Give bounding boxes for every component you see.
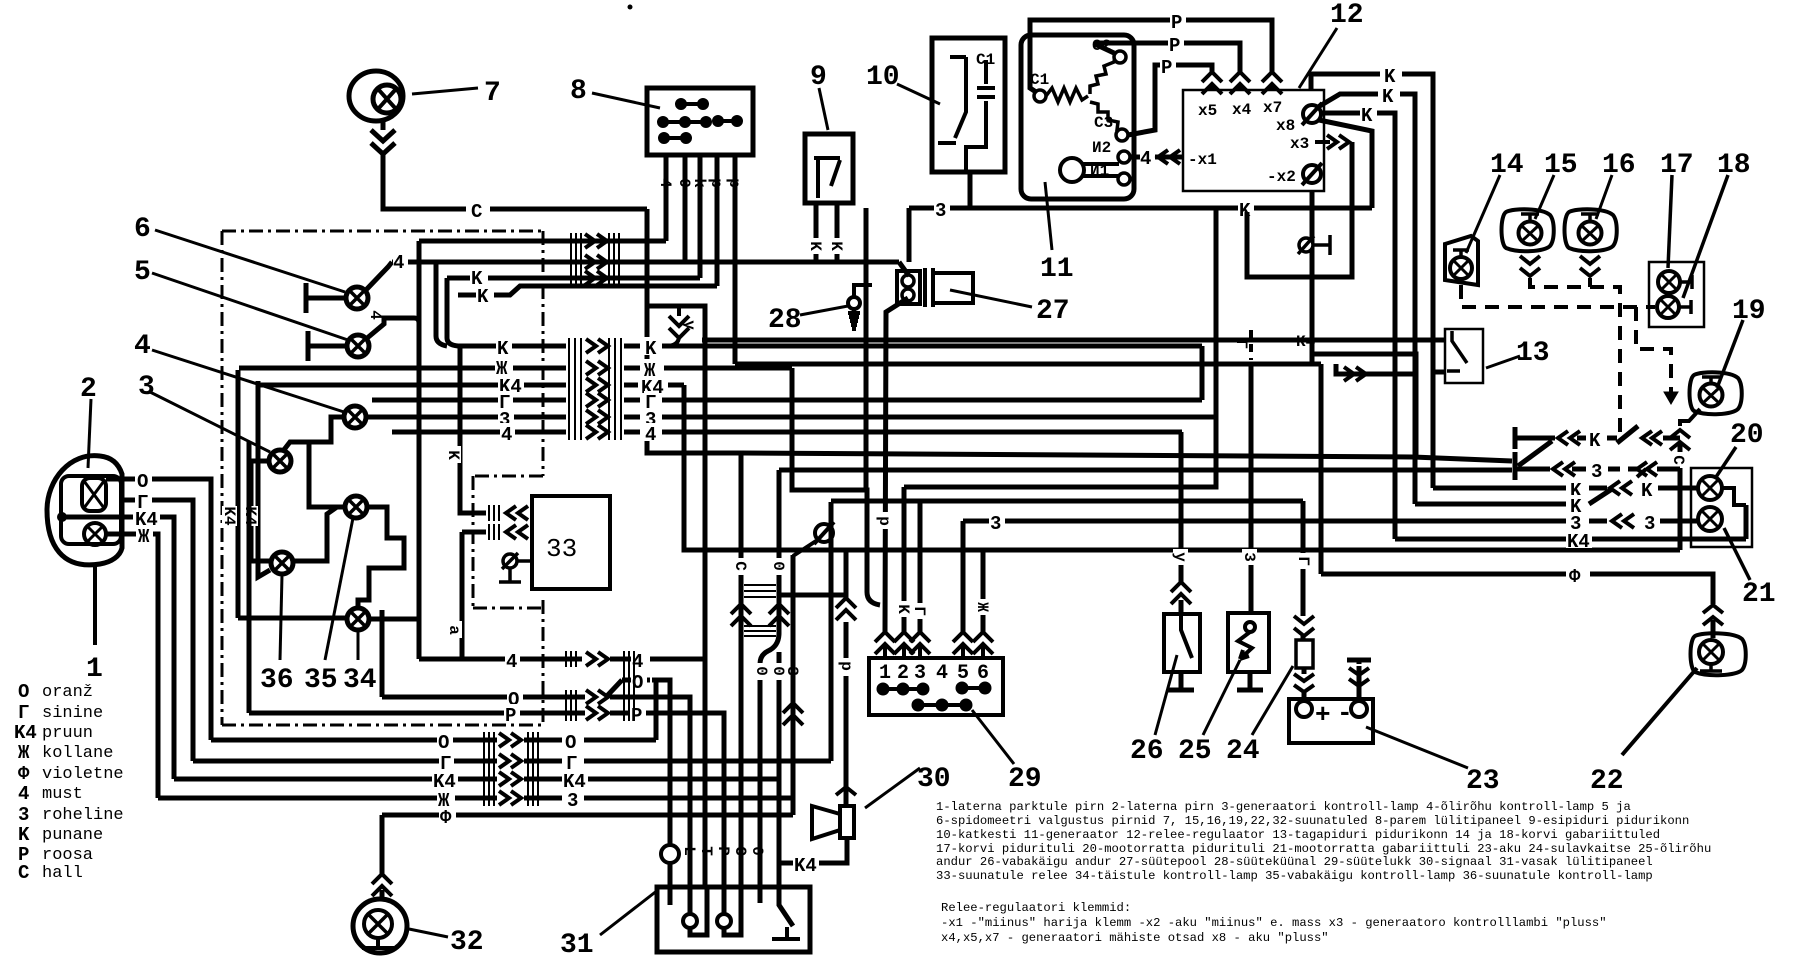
svg-text:3: 3 (1644, 513, 1655, 535)
svg-text:K: K (444, 450, 462, 460)
wires below box 9 (816, 203, 837, 262)
row Z y417 (366, 415, 566, 420)
label K on row295 (476, 286, 494, 308)
svg-text:1: 1 (86, 654, 103, 685)
leader to label 11 (1045, 182, 1052, 250)
lamp 4 (344, 406, 366, 428)
lamp 34 (high beam) (347, 608, 369, 630)
diagonal from x8 down to k207 line (1319, 120, 1372, 208)
svg-text:K: K (1641, 480, 1653, 502)
box 33 (flasher relay) (532, 496, 610, 589)
rotated terminal labels above panel 31 (680, 846, 766, 856)
row KCH y539 (1395, 505, 1746, 539)
bottom bundle chevrons (499, 733, 521, 805)
vertical bus x436 from ch wire (436, 262, 447, 346)
K wire 2 (y94) from x8 (1318, 94, 1378, 107)
svg-text:p: p (725, 178, 743, 188)
row O y680 (622, 680, 670, 844)
svg-text:4: 4 (393, 252, 404, 274)
svg-text:25: 25 (1178, 736, 1212, 767)
component 26 (neutral sender) (1164, 614, 1200, 672)
headlamp wire ZH (106, 532, 136, 537)
svg-text:3: 3 (567, 790, 578, 812)
wire F down to lamp 32 (380, 815, 385, 898)
svg-text:0: 0 (769, 561, 787, 571)
row O y697 (382, 610, 585, 697)
C and F verticals into panel with chevrons (731, 604, 789, 626)
wire ZH riser x792 (792, 368, 880, 605)
svg-text:4: 4 (366, 310, 384, 320)
rotor (1060, 158, 1119, 182)
svg-text:p: p (837, 661, 855, 671)
svg-text:y: y (1171, 552, 1189, 562)
three P wires from generator (1030, 20, 1272, 135)
battery 23 (1289, 699, 1373, 743)
lamp 32 (353, 899, 407, 953)
svg-text:8: 8 (570, 76, 587, 107)
svg-text:3: 3 (138, 372, 155, 403)
svg-text:4: 4 (936, 662, 948, 685)
svg-text:oranž: oranž (42, 683, 93, 702)
svg-text:5: 5 (957, 662, 969, 685)
svg-text:K: K (1589, 430, 1601, 452)
generator 11 (1021, 35, 1134, 199)
wire x909 down to y262 (907, 208, 912, 262)
vertical bus x419 (417, 241, 422, 659)
wire F to lamp22 with chevrons (1711, 620, 1716, 638)
relay input wires with chevrons (460, 346, 486, 513)
svg-text:kollane: kollane (42, 744, 113, 763)
leader to label 7 (412, 88, 478, 94)
box 20 21 (motorcycle rear) (1691, 468, 1752, 547)
svg-text:2: 2 (80, 374, 97, 405)
svg-text:33-suunatule relee 34-täistule: 33-suunatule relee 34-täistule kontroll-… (936, 869, 1653, 883)
svg-text:K: K (1384, 66, 1396, 88)
wire x3 down and left (1247, 142, 1352, 277)
vertical x866 (864, 208, 869, 490)
svg-text:32: 32 (450, 927, 484, 958)
box 13 (rear brake switch) (1445, 329, 1483, 383)
lamp 14 (sidecar front light) (1445, 236, 1478, 285)
junction dot on frame (57, 512, 67, 522)
svg-text:-x2: -x2 (1267, 168, 1296, 186)
svg-text:-: - (1337, 698, 1353, 728)
svg-text:roosa: roosa (42, 846, 93, 865)
svg-text:C: C (731, 561, 749, 571)
svg-text:3: 3 (1591, 461, 1602, 483)
leader 22 (1622, 668, 1697, 755)
svg-text:Г: Г (1232, 339, 1250, 349)
coil lower wire to ignition (885, 298, 908, 632)
svg-text:P: P (1161, 57, 1172, 79)
headlamp wire G (122, 498, 135, 503)
wire t5 horizontal y521 (963, 519, 1250, 524)
svg-text:4: 4 (656, 178, 674, 188)
svg-text:24: 24 (1226, 736, 1260, 767)
panel 31 interior (670, 887, 800, 939)
headlamp housing (1,2) (47, 456, 122, 565)
row F y574 (1321, 574, 1713, 604)
wire lamp34 left to KCH vertical (238, 616, 347, 621)
svg-text:K4: K4 (1567, 531, 1590, 553)
-x2 wire down with connector symbol (1310, 191, 1315, 364)
lamp 36 (turn indicator) (271, 552, 293, 574)
k wire 3 (y113) from x8 (1322, 111, 1360, 116)
vertical x793 (F riser) (791, 555, 796, 815)
svg-text:K: K (1361, 105, 1373, 127)
row KCH y385 (258, 383, 566, 388)
wire row y295 K jog (458, 286, 717, 295)
svg-text:T: T (697, 846, 715, 856)
svg-text:P: P (714, 846, 732, 856)
svg-text:x7: x7 (1263, 99, 1282, 117)
lamp 22 (1691, 633, 1746, 675)
row ch y659 (419, 657, 582, 662)
stray mark (628, 5, 633, 10)
svg-text:5: 5 (134, 257, 151, 288)
svg-text:must: must (42, 785, 83, 804)
bundle chevrons (586, 339, 608, 439)
svg-text:Ф: Ф (1569, 566, 1581, 588)
leader to label 1 (93, 566, 97, 645)
ground symbol at box33 (499, 553, 532, 582)
svg-text:Г: Г (18, 702, 29, 724)
wire И2 to -x1 (1130, 155, 1183, 160)
svg-text:3: 3 (1240, 552, 1258, 562)
svg-text:0: 0 (752, 666, 770, 676)
svg-text:x4,x5,x7 - generaatori mähiste: x4,x5,x7 - generaatori mähiste otsad x8 … (941, 931, 1329, 945)
chevron arrows into box12 top (1202, 72, 1282, 94)
lamp19 hook to C vertical (1680, 409, 1700, 426)
row z y469 (1515, 459, 1680, 480)
long wire y208 (909, 206, 1372, 211)
svg-text:1: 1 (879, 662, 891, 685)
svg-text:6: 6 (977, 662, 989, 685)
wire: lamp7 down with chevrons (371, 122, 647, 209)
svg-text:Ж: Ж (496, 358, 508, 380)
leader to label 31 (600, 890, 658, 935)
wire: branch to panel switch vertical (647, 306, 705, 887)
svg-text:violetne: violetne (42, 765, 124, 784)
component 25 (oil pressure sender) (1228, 613, 1269, 672)
svg-text:27: 27 (1036, 296, 1070, 327)
riser x1416 from -x2 stub (1312, 354, 1416, 457)
chevrons on branch (node u) (666, 306, 689, 346)
svg-text:-x1 -"miinus" harija klemm -x2: -x1 -"miinus" harija klemm -x2 -aku "mii… (941, 916, 1607, 930)
svg-text:3: 3 (914, 662, 926, 685)
svg-text:Ж: Ж (973, 602, 991, 612)
wire y262 to coil (899, 262, 909, 276)
theta and Z rotated labels mid (752, 663, 770, 680)
horn feed wire (844, 550, 849, 806)
box 12 (relay-regulator) (1183, 90, 1324, 191)
svg-text:12: 12 (1330, 0, 1364, 31)
svg-text:O: O (18, 681, 29, 703)
wire row y278 K (447, 276, 700, 281)
lamp 3 (269, 450, 291, 472)
svg-text:K: K (645, 338, 657, 360)
headlamp wire KCH (62, 515, 133, 520)
svg-text:-x1: -x1 (1188, 151, 1217, 169)
ignition lock 29 (869, 658, 1003, 715)
svg-text:x4: x4 (1232, 101, 1252, 119)
svg-text:Ж: Ж (18, 742, 30, 764)
bottom bundle row KCH y779 (174, 777, 497, 782)
terminal -x2 (1302, 163, 1322, 185)
svg-text:31: 31 (560, 930, 594, 961)
svg-text:K: K (18, 824, 30, 846)
svg-text:26: 26 (1130, 736, 1164, 767)
lamp 6 with T-bar (306, 262, 392, 313)
svg-text:K: K (1382, 86, 1394, 108)
rotated wire labels under box 8 (656, 178, 743, 188)
svg-text:p: p (875, 516, 893, 526)
svg-text:13: 13 (1516, 338, 1550, 369)
long wire y364 (735, 362, 1321, 367)
svg-text:C: C (1669, 455, 1687, 465)
relay terminals text block (941, 901, 1607, 945)
svg-text:andur 26-vabakäigu andur 27-sü: andur 26-vabakäigu andur 27-süütepool 28… (936, 855, 1653, 869)
row P y713 (249, 442, 585, 713)
bottom bundle row G y761 (193, 759, 497, 764)
ignition coil 27 (897, 268, 973, 307)
box 17 18 (sidecar rear) (1649, 262, 1704, 327)
wire lamp4 left to lamp3 (283, 417, 344, 451)
svg-text:30: 30 (917, 764, 951, 795)
fuse 24 (1301, 501, 1306, 640)
svg-text:14: 14 (1490, 150, 1524, 181)
svg-text:K4: K4 (220, 506, 238, 526)
lamp 1 (park bulb) (84, 523, 106, 545)
svg-text:Relee-regulaatori klemmid:: Relee-regulaatori klemmid: (941, 901, 1131, 915)
ignition feeds (902, 487, 907, 632)
svg-text:+: + (1315, 700, 1331, 730)
bottom bundle row F y815 (382, 813, 793, 818)
legend text block (936, 800, 1711, 883)
svg-text:Ф: Ф (440, 807, 452, 829)
KCH vertical pair (236, 370, 241, 618)
ignition terminal chevrons (875, 632, 993, 658)
legend wire colour table (14, 681, 124, 884)
wire lamp3 left down to lamp36 (251, 461, 271, 561)
svg-text:punane: punane (42, 826, 103, 845)
svg-text:O: O (137, 471, 148, 493)
svg-text:P: P (1169, 35, 1180, 57)
svg-text:C1: C1 (1030, 71, 1049, 89)
svg-text:10-katkesti 11-generaator 12-r: 10-katkesti 11-generaator 12-relee-regul… (936, 828, 1660, 842)
dashed wiring sidecar (1461, 278, 1671, 432)
svg-text:C: C (471, 201, 482, 223)
box13 top wire y340 (702, 338, 1445, 343)
lamp 2 (headlight bulb) (82, 478, 106, 511)
svg-text:4: 4 (506, 651, 517, 673)
svg-text:4: 4 (1140, 148, 1151, 170)
svg-text:K: K (477, 286, 489, 308)
box 9 (front brake switch) (805, 134, 853, 203)
svg-text:O: O (438, 732, 449, 754)
bottom bundle row O y740 (211, 738, 497, 743)
svg-text:C3: C3 (1094, 114, 1113, 132)
svg-text:18: 18 (1717, 150, 1751, 181)
svg-text:C: C (18, 862, 29, 884)
svg-text:x3: x3 (1290, 135, 1309, 153)
svg-text:p: p (707, 178, 725, 188)
svg-text:34: 34 (343, 665, 377, 696)
lamp 16 (1565, 209, 1617, 251)
terminal x8 (1302, 103, 1322, 125)
box 8 (right switch panel) (647, 88, 753, 155)
svg-text:20: 20 (1730, 420, 1764, 451)
handlebar rows: row k y438 (1515, 426, 1680, 449)
row z y521 (1250, 519, 1697, 524)
svg-text:17: 17 (1660, 150, 1694, 181)
svg-text:4: 4 (134, 331, 151, 362)
svg-text:4: 4 (18, 783, 29, 805)
svg-text:y: y (680, 320, 698, 330)
svg-text:23: 23 (1466, 766, 1500, 797)
row K y346 (458, 344, 566, 349)
F riser x1321 (1319, 364, 1324, 574)
wire lamp35 left riser (309, 442, 345, 507)
svg-text:roheline: roheline (42, 806, 124, 825)
svg-text:И2: И2 (1092, 139, 1111, 157)
wire row y241 (419, 239, 666, 244)
svg-text:21: 21 (1742, 579, 1776, 610)
svg-text:Ф: Ф (18, 763, 30, 785)
leader to label 27 (950, 290, 1032, 307)
svg-text:O: O (565, 732, 576, 754)
svg-text:sinine: sinine (42, 704, 103, 723)
row K y488 (brake light) (1433, 486, 1697, 491)
svg-text:0: 0 (748, 846, 766, 856)
frame connector symbol (793, 522, 834, 556)
chevrons below lamps 15 16 (1520, 256, 1600, 276)
wires below box 8 (666, 155, 735, 364)
svg-text:33: 33 (546, 534, 577, 564)
svg-text:6: 6 (134, 214, 151, 245)
leader 29 (972, 710, 1014, 764)
svg-text:29: 29 (1008, 764, 1042, 795)
svg-text:P: P (1171, 12, 1182, 34)
svg-text:L: L (680, 846, 698, 856)
svg-text:17-korvi pidurituli 20-mootorr: 17-korvi pidurituli 20-mootorratta pidur… (936, 842, 1711, 856)
svg-text:K: K (894, 604, 912, 614)
svg-text:3: 3 (18, 804, 29, 826)
svg-text:7: 7 (484, 78, 501, 109)
wire lamp35 right staircase to lamp34 (358, 507, 404, 608)
svg-text:P: P (505, 705, 516, 727)
svg-text:K: K (806, 241, 824, 251)
svg-text:3: 3 (935, 200, 946, 222)
open circle terminal (661, 845, 679, 863)
svg-text:C: C (731, 846, 749, 856)
svg-text:x8: x8 (1276, 117, 1295, 135)
connector hatches and chevrons top bundle (571, 233, 619, 288)
lamp 15 (1502, 209, 1554, 251)
svg-text:1-laterna parktule pirn 2-late: 1-laterna parktule pirn 2-laterna pirn 3… (936, 800, 1631, 814)
svg-text:3: 3 (990, 513, 1001, 535)
headlamp wire O (106, 477, 135, 482)
C vertical right (1678, 444, 1683, 550)
svg-text:Г: Г (1294, 556, 1312, 566)
row G y400 (372, 398, 566, 403)
svg-text:28: 28 (768, 305, 802, 336)
wire from box10 down to z line (968, 172, 973, 208)
wire lamp36 right up to lamp35 (293, 507, 345, 561)
svg-text:x5: x5 (1198, 102, 1217, 120)
svg-text:hall: hall (42, 864, 83, 883)
row CH y432 (392, 430, 566, 435)
svg-text:9: 9 (810, 62, 827, 93)
row k y504 with blade (1415, 502, 1566, 507)
svg-text:pruun: pruun (42, 724, 93, 743)
svg-text:4: 4 (645, 424, 656, 446)
svg-text:Ж: Ж (138, 526, 150, 548)
lamp 5 with T-bar (308, 318, 419, 361)
chevrons rows 659-713 (586, 652, 608, 720)
wire lamp34 right to x419 (369, 617, 419, 622)
leader 30 (865, 768, 920, 808)
box 10 (breaker) (932, 38, 1005, 172)
lamp 7 (turn signal) (349, 71, 403, 121)
svg-text:15: 15 (1544, 150, 1578, 181)
vertical bus x447 from K wire (447, 278, 458, 346)
wire: C vertical down to jog (647, 209, 741, 453)
label ch on wire of lamp6 (393, 252, 408, 274)
svg-text:K4: K4 (794, 855, 817, 877)
svg-text:10: 10 (866, 62, 900, 93)
lamp 19 (1690, 372, 1742, 414)
leader to label 8 (592, 93, 660, 108)
svg-text:35: 35 (304, 665, 338, 696)
wire KCH riser x684 to C row (684, 385, 1680, 550)
K wire top (y74) (1311, 74, 1380, 90)
svg-text:a: a (445, 625, 463, 635)
wire t2 horizontal y487 (904, 208, 1216, 487)
svg-text:19: 19 (1732, 296, 1766, 327)
spark plug 28 (848, 297, 860, 331)
wire: C vertical to left panel (terminal C) (739, 453, 744, 887)
leaders 34 35 36 (357, 632, 360, 660)
row 2 T-bar with blade (1515, 441, 1552, 474)
long wire y470 (779, 468, 1512, 473)
battery minus ground (1347, 660, 1371, 701)
svg-text:k: k (690, 178, 708, 188)
leader to label 12 (1299, 28, 1337, 88)
svg-text:K: K (827, 241, 845, 251)
bundle hatches (569, 338, 621, 440)
wire t3 horizontal y502 (831, 499, 1303, 504)
wire row y262 (392, 260, 899, 265)
horn lower wire to panel switch KCH (779, 838, 847, 863)
bottom bundle row ZH y798 (158, 796, 497, 801)
x3 arrow (1315, 135, 1349, 149)
panel 31 box (left switch panel) (657, 887, 810, 952)
label K on row278 (470, 268, 488, 290)
row ZH y368 (239, 366, 566, 371)
svg-text:K4: K4 (14, 722, 37, 744)
horn 30 (812, 806, 854, 839)
svg-text:P: P (631, 705, 642, 727)
headlamp inner frame (61, 476, 121, 544)
svg-text:6-spidomeetri valgustus pirnid: 6-spidomeetri valgustus pirnid 7, 15,16,… (936, 814, 1689, 828)
lamp 35 (neutral) (345, 496, 367, 518)
svg-text:11: 11 (1040, 254, 1074, 285)
svg-text:16: 16 (1602, 150, 1636, 181)
long wire y455 (741, 453, 1512, 461)
dash-dot instrument panel border (222, 231, 543, 725)
svg-text:36: 36 (260, 665, 294, 696)
